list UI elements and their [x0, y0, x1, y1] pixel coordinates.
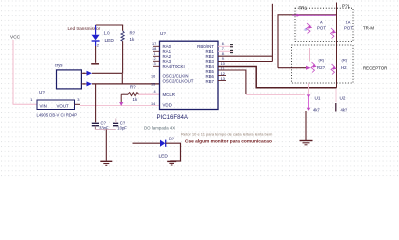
svg-text:RB7: RB7: [205, 79, 214, 84]
svg-text:1k: 1k: [133, 97, 138, 102]
svg-text:Retor 10 e 11 para tempo de ca: Retor 10 e 11 para tempo de cada leitura…: [181, 132, 273, 137]
wire junction down to caps: [95, 84, 97, 122]
wire LED top to resistor: [96, 25, 123, 31]
crystal X1: [55, 63, 82, 89]
svg-text:17: 17: [152, 42, 156, 46]
svg-text:P?L: P?L: [342, 4, 351, 9]
svg-text:VIN: VIN: [40, 104, 47, 109]
wire receiver feed pale: [308, 83, 310, 94]
receiver sensor 1: [311, 58, 326, 73]
pin stubs right RB0 RB1: [218, 45, 233, 81]
pin numbers right: [221, 42, 225, 81]
wire pot1 top lead pale: [309, 48, 311, 62]
svg-text:16: 16: [151, 75, 155, 79]
svg-text:D?: D?: [169, 137, 174, 141]
wire RB5 down: [218, 70, 246, 94]
wire arrow into receiver box: [278, 66, 311, 70]
svg-text:R?: R?: [130, 85, 136, 90]
wire pale pink to receiver U1: [246, 94, 305, 96]
wire vertical to top edge: [271, 4, 273, 62]
ground (LED D2): [167, 161, 176, 165]
LED D1 (top transmitter): [92, 25, 115, 48]
dashed box receivers: [292, 45, 354, 83]
wire RB3: [218, 61, 272, 63]
node dot crystal pin1: [83, 73, 85, 75]
LED D2 bottom indicator: [133, 137, 174, 160]
svg-text:VCC: VCC: [10, 35, 21, 41]
svg-text:6: 6: [222, 42, 224, 46]
svg-text:POT: POT: [344, 26, 353, 31]
wire crystal pin1 with arrow: [81, 71, 122, 84]
svg-text:PIC16F84A: PIC16F84A: [157, 114, 189, 121]
svg-text:LED: LED: [159, 154, 169, 160]
svg-text:MCLR: MCLR: [163, 92, 175, 97]
VCC power terminal: [10, 35, 21, 41]
svg-text:1A: 1A: [346, 20, 351, 25]
svg-text:2: 2: [154, 57, 156, 61]
svg-text:RA4/T0CKI: RA4/T0CKI: [163, 64, 185, 69]
wire MCLR pullup left lead: [121, 93, 128, 95]
dashed box pots: [295, 4, 353, 42]
svg-text:4: 4: [154, 90, 156, 94]
wire LED D2 to ground: [166, 143, 181, 161]
capacitor C2 10pF: [113, 119, 127, 131]
svg-text:(R): (R): [342, 58, 348, 63]
svg-text:U2: U2: [340, 96, 346, 101]
svg-text:TR1: TR1: [299, 6, 308, 11]
svg-text:POT: POT: [317, 26, 326, 31]
capacitor C1 33pF: [92, 120, 109, 130]
svg-text:DO lampada 4X: DO lampada 4X: [144, 126, 175, 131]
svg-text:1: 1: [154, 52, 156, 56]
svg-text:4k7: 4k7: [313, 108, 320, 113]
regulator U? 7805: [30, 90, 80, 118]
svg-text:4k?: 4k?: [341, 108, 348, 113]
svg-text:LED: LED: [105, 38, 115, 44]
wire MCLR to IC pink: [139, 93, 160, 95]
potentiometer P1: [305, 20, 327, 34]
wire RB4 down and right: [218, 67, 337, 88]
wire caps to ground: [94, 126, 96, 130]
wire U1 to ground: [305, 111, 307, 140]
svg-text:8: 8: [222, 52, 224, 56]
svg-text:14: 14: [151, 102, 155, 106]
svg-text:U?: U?: [39, 90, 45, 95]
svg-text:U?: U?: [160, 31, 166, 36]
potentiometer P2: [331, 20, 354, 39]
wire magenta inside pot box: [292, 14, 336, 17]
wire VCC vertical pink: [13, 40, 37, 104]
svg-text:U1: U1: [315, 96, 321, 101]
svg-text:15: 15: [151, 83, 155, 87]
svg-text:OSC2/CLKOUT: OSC2/CLKOUT: [163, 78, 194, 83]
resistor R1 1k (vertical): [121, 31, 136, 42]
svg-text:L4905 DB-V CI RD4P: L4905 DB-V CI RD4P: [37, 113, 78, 118]
sensor U2 lead: [336, 89, 348, 113]
svg-text:H2: H2: [341, 65, 347, 70]
svg-text:1.0: 1.0: [104, 31, 111, 36]
svg-text:R?: R?: [130, 31, 136, 36]
ground (sensor): [300, 141, 313, 145]
svg-text:10pF: 10pF: [117, 125, 127, 130]
svg-text:TR-M: TR-M: [363, 26, 374, 31]
wire long vertical right: [336, 3, 338, 88]
wire crystal pin2 to OSC2 with arrow: [81, 81, 159, 86]
wire MCLR pullup to VDD rail with arrow: [119, 94, 123, 106]
svg-text:(R): (R): [319, 58, 325, 63]
svg-text:VOUT: VOUT: [57, 104, 70, 109]
receiver sensor 2: [331, 58, 348, 75]
sensor U1 lead magenta: [307, 94, 321, 112]
svg-text:18: 18: [152, 47, 156, 51]
svg-text:R2?: R2?: [317, 65, 326, 70]
pin stubs left: [153, 46, 160, 66]
svg-text:7: 7: [222, 47, 224, 51]
wire VDD rail pale pink: [80, 105, 160, 107]
svg-text:3: 3: [154, 62, 156, 66]
IC U1 PIC16F84A: [157, 31, 219, 121]
wire to pot box top: [278, 15, 337, 68]
svg-text:RECEPTOR: RECEPTOR: [363, 66, 387, 71]
wire resistor bottom down to OSC1 line: [122, 41, 124, 73]
svg-text:VDD: VDD: [163, 103, 172, 108]
wire VOUT stub: [75, 103, 81, 105]
resistor R2 1k MCLR pullup (horizontal): [128, 85, 139, 103]
wire RB2 to top: [218, 55, 272, 57]
ground (LED transmitter): [91, 63, 99, 65]
svg-text:Cse algum monitor para comunic: Cse algum monitor para comunicacao: [185, 139, 272, 145]
ground (crystal caps): [100, 161, 112, 165]
pin numbers left: [151, 42, 156, 106]
svg-text:9: 9: [222, 57, 224, 61]
node dot crystal pin2: [83, 83, 85, 85]
svg-text:10: 10: [221, 62, 225, 66]
svg-text:1k: 1k: [130, 37, 135, 42]
svg-text:crys: crys: [55, 63, 63, 68]
wire LED cathode down to ground: [95, 46, 97, 63]
svg-text:A: A: [320, 20, 323, 25]
